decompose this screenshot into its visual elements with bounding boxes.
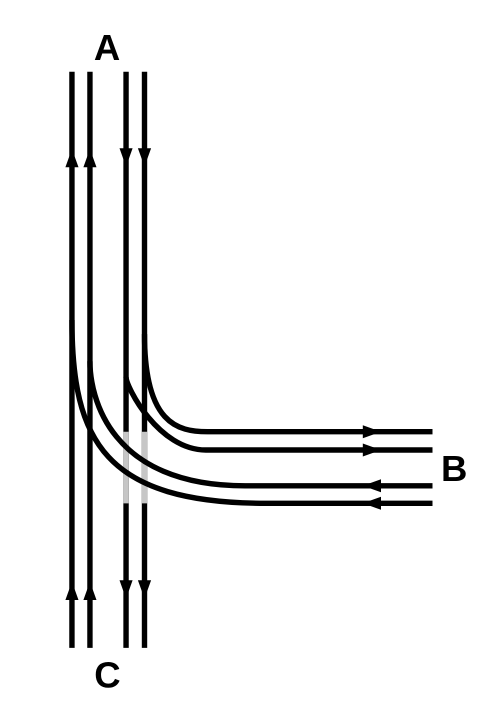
svg-text:B: B [441,448,467,489]
curve lane: line 4 to B top lane (h1) [145,334,433,432]
arrowhead left, h4 [363,497,381,510]
svg-text:C: C [94,654,120,695]
arrowhead left, h3 [363,479,381,492]
arrowhead up, line 1 bottom [65,582,78,600]
curve lane: line 1 to B bottom lane (h4) [72,320,433,503]
lane line 3 (C-bound down lane, inner right) [123,72,128,648]
underpass gray segment on line 3 [123,432,128,504]
arrowhead up, line 2 bottom [83,582,96,600]
svg-text:A: A [94,27,120,68]
arrowhead down, line 4 top [138,148,151,166]
curve lane: line 2 to B third lane (h3) [90,361,433,486]
lane line 4 (C-bound down lane, outer right) [142,72,147,648]
arrowhead up, line 2 top [83,149,96,167]
arrowhead down, line 3 bottom [120,580,133,598]
arrowhead right, h1 [363,425,381,438]
lane line 1 (A-bound up lane, outer left) [69,72,74,648]
arrowhead right, h2 [363,444,381,457]
underpass gray segment on line 4 [142,432,147,504]
lane line 2 (A-bound up lane, inner left) [87,72,92,648]
arrowhead down, line 4 bottom [138,580,151,598]
arrowhead up, line 1 top [65,149,78,167]
arrowhead down, line 3 top [120,148,133,166]
curve lane: line 3 to B second lane (h2) [126,377,432,450]
